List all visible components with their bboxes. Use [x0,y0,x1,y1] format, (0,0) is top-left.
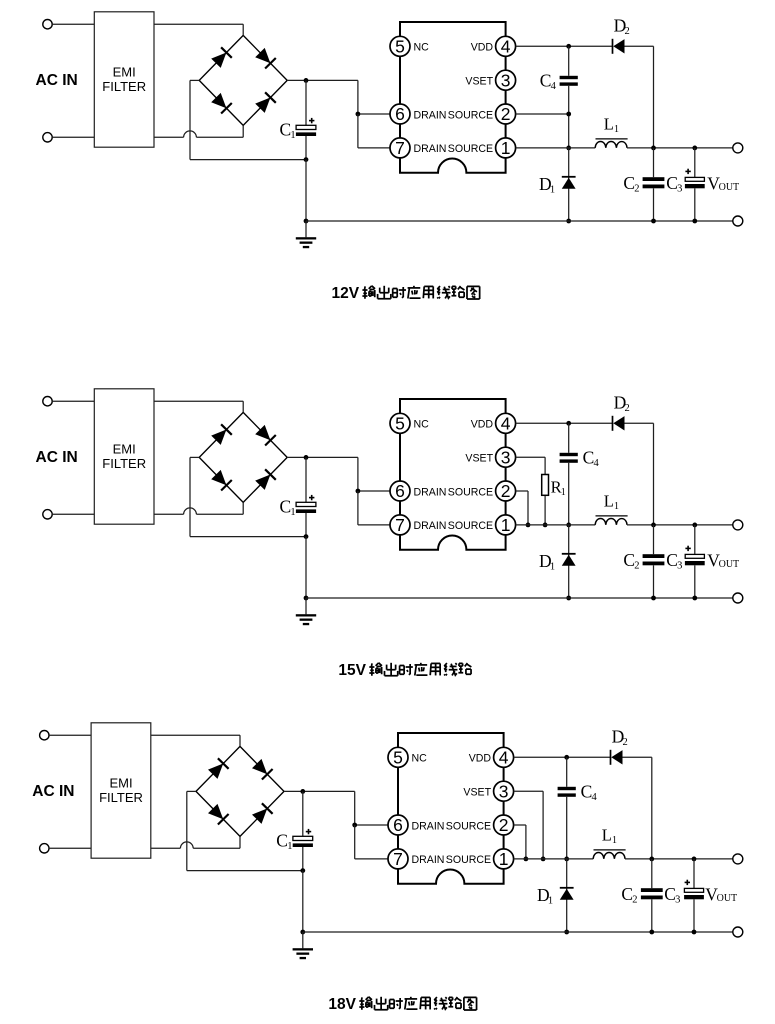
label L1 [604,492,619,512]
inductor L1 [595,516,627,525]
svg-text:7: 7 [393,849,403,869]
svg-text:1: 1 [499,849,509,869]
wire [151,735,240,746]
label C1 [276,830,292,852]
label AC IN [32,783,74,800]
wire [190,457,306,536]
pin 5 NC [390,36,429,56]
svg-text:NC: NC [412,753,428,765]
caption 18V application circuit [328,996,476,1013]
diode bridge bottom-left [208,804,229,825]
svg-text:12V: 12V [332,285,360,302]
label VOUT [707,550,739,570]
terminal output + [733,143,743,153]
svg-text:L: L [604,492,614,511]
pin 6 DRAIN [390,481,446,501]
terminal output - [733,927,743,937]
node C2 ground junction [651,219,656,224]
wire [287,79,358,81]
diode bridge top-left [208,758,229,779]
diode D2 [611,750,623,765]
svg-text:1: 1 [501,515,511,535]
node C2 ground junction [651,596,656,601]
node C3 top junction [692,146,697,151]
svg-text:3: 3 [501,447,511,467]
svg-text:4: 4 [592,792,598,803]
svg-text:SOURCE: SOURCE [448,143,493,155]
svg-text:OUT: OUT [717,893,738,904]
svg-text:2: 2 [634,184,639,195]
label D1 [539,174,555,196]
pin 3 VSET [463,781,513,801]
wire [49,734,91,736]
node VDD junction [564,755,569,760]
pin 1 SOURCE [448,138,516,158]
svg-text:OUT: OUT [719,182,740,193]
svg-text:AC IN: AC IN [36,72,78,89]
svg-text:EMI: EMI [113,65,136,80]
wire [187,791,303,870]
svg-text:3: 3 [501,70,511,90]
node L1 output junction [651,523,656,528]
capacitor C2 [643,525,665,598]
ground [296,598,316,625]
svg-text:1: 1 [614,124,619,135]
wire [516,45,613,47]
terminal output - [733,593,743,603]
wire [190,80,306,159]
node L1 output junction [651,146,656,151]
diode bridge top-right [252,759,273,780]
wire [303,931,733,933]
bridge rectifier frame [199,412,287,502]
diode bridge top-right [255,425,276,446]
node switch node junction [566,146,571,151]
svg-text:1: 1 [550,184,555,195]
svg-text:EMI: EMI [113,442,136,457]
node C3 top junction [692,857,697,862]
svg-text:6: 6 [395,481,405,501]
EMI filter block [94,12,154,147]
wire [516,422,613,424]
capacitor C4 [558,757,576,859]
diode bridge top-left [211,47,232,68]
svg-text:SOURCE: SOURCE [446,854,491,866]
label VOUT [705,884,737,904]
polarity + of C1 [309,495,314,500]
wire [151,836,240,848]
polarity + of C1 [306,829,311,834]
svg-text:DRAIN: DRAIN [414,109,447,121]
svg-text:FILTER: FILTER [102,79,146,94]
pin 2 SOURCE [448,104,516,124]
svg-text:DRAIN: DRAIN [412,854,445,866]
label D2 [614,16,630,37]
terminal AC input top [43,397,52,406]
svg-text:1: 1 [612,835,617,846]
bridge rectifier frame [199,35,287,125]
node D1 ground junction [566,219,571,224]
node L1 output junction [649,857,654,862]
diode bridge top-right [255,48,276,69]
wire [305,160,307,221]
svg-text:L: L [604,115,614,134]
node rectifier + junction [300,789,305,794]
svg-text:4: 4 [594,458,600,469]
svg-text:2: 2 [501,104,511,124]
svg-text:6: 6 [393,815,403,835]
svg-text:NC: NC [414,42,430,54]
wire [358,491,390,525]
svg-text:4: 4 [501,37,511,57]
wire [287,456,358,458]
terminal AC input bottom [43,133,52,142]
svg-text:VSET: VSET [463,787,491,799]
label C3 [664,884,680,906]
pin 5 NC [390,413,429,433]
wire [625,423,654,525]
polarity + of C3 [685,546,690,551]
node D1 ground junction [566,596,571,601]
svg-text:1: 1 [290,130,295,141]
svg-text:7: 7 [395,515,405,535]
node C3 ground junction [692,930,697,935]
svg-text:SOURCE: SOURCE [448,520,493,532]
svg-text:2: 2 [625,26,630,37]
wire [49,847,91,849]
ground [293,932,313,959]
svg-text:SOURCE: SOURCE [446,820,491,832]
node ground junction [304,596,309,601]
node drain feed junction [356,489,361,494]
svg-text:VSET: VSET [465,76,493,88]
wire [52,23,94,25]
label VOUT [707,173,739,193]
node SOURCE2 junction [566,112,571,117]
capacitor C3 [685,148,705,221]
wire [358,80,390,114]
wire [52,400,94,402]
EMI filter block [94,389,154,524]
wire [154,502,243,514]
svg-text:1: 1 [614,501,619,512]
svg-text:3: 3 [677,561,682,572]
inductor L1 [593,850,625,859]
svg-text:1: 1 [501,138,511,158]
svg-text:VSET: VSET [465,453,493,465]
svg-text:2: 2 [499,815,509,835]
label D2 [614,393,630,415]
svg-text:3: 3 [499,781,509,801]
capacitor C2 [643,148,665,221]
pin 3 VSET [465,447,515,467]
wire [514,791,544,859]
capacitor C1 [296,80,316,159]
wire [302,871,304,932]
diode D1 [562,148,576,221]
svg-text:2: 2 [625,403,630,414]
ground [296,221,316,248]
node SOURCE2 tie junction [526,523,531,528]
wire [355,791,388,825]
svg-text:2: 2 [632,895,637,906]
terminal output + [733,854,743,864]
capacitor C4 [560,423,578,525]
pin 4 VDD [469,747,514,767]
terminal AC input top [40,731,49,740]
svg-text:6: 6 [395,104,405,124]
pin 2 SOURCE [446,815,514,835]
svg-text:3: 3 [675,895,680,906]
polarity + of C3 [685,169,690,174]
caption 15V application circuit [338,662,471,679]
wire [355,825,388,859]
svg-text:AC IN: AC IN [36,449,78,466]
svg-text:3: 3 [677,184,682,195]
node C2 ground junction [649,930,654,935]
node C1 negative junction [300,868,305,873]
caption 12V application circuit [332,285,480,302]
capacitor C3 [685,525,705,598]
node C3 top junction [692,523,697,528]
wire [627,147,733,149]
svg-text:1: 1 [550,561,555,572]
bridge rectifier frame [196,746,284,836]
capacitor C1 [296,457,316,536]
svg-text:4: 4 [551,81,557,92]
diode D1 [562,525,576,598]
label AC IN [36,72,78,89]
svg-text:L: L [602,826,612,845]
label L1 [604,115,619,136]
node VSET tie junction [543,523,548,528]
wire [625,858,733,860]
svg-text:2: 2 [623,737,628,748]
svg-text:1: 1 [290,507,295,518]
pin 7 DRAIN [388,849,444,869]
pin 4 VDD [471,413,516,433]
op-amp U1 package outline [400,22,506,173]
node C1 negative junction [304,534,309,539]
pin 2 SOURCE [448,481,516,501]
svg-text:DRAIN: DRAIN [414,143,447,155]
wire [516,524,596,526]
polarity + of C1 [309,118,314,123]
node VSET tie junction [541,857,546,862]
pin 6 DRAIN [390,104,446,124]
svg-text:DRAIN: DRAIN [414,486,447,498]
diode bridge bottom-right [252,803,273,824]
pin 3 VSET [465,70,515,90]
label C2 [621,884,637,906]
wire [306,597,733,599]
svg-text:VDD: VDD [471,42,494,54]
wire [358,457,390,491]
label D2 [612,727,628,749]
wire [623,757,652,859]
diode D1 [560,859,574,932]
svg-text:AC IN: AC IN [32,783,74,800]
label AC IN [36,449,78,466]
wire [52,513,94,515]
wire [284,790,355,792]
node rectifier + junction [304,78,309,83]
node VDD junction [566,421,571,426]
label D1 [537,885,553,907]
node drain feed junction [352,823,357,828]
svg-text:5: 5 [395,37,405,57]
pin 7 DRAIN [390,515,446,535]
svg-text:1: 1 [548,895,553,906]
label C1 [280,119,296,141]
pin 7 DRAIN [390,138,446,158]
svg-text:1: 1 [561,487,566,498]
pin 4 VDD [471,36,516,56]
node VDD junction [566,44,571,49]
label C3 [666,173,682,195]
resistor R1 [542,475,549,496]
node C3 ground junction [692,596,697,601]
capacitor C4 [560,46,578,148]
wire [625,46,654,148]
wire [358,114,390,148]
pin 6 DRAIN [388,815,444,835]
label L1 [602,826,617,847]
node switch node junction [566,523,571,528]
svg-text:EMI: EMI [109,776,132,791]
terminal AC input bottom [43,510,52,519]
diode bridge bottom-right [255,92,276,113]
label C1 [280,496,296,518]
node drain feed junction [356,112,361,117]
wire [516,457,546,525]
wire [514,825,526,859]
label D1 [539,551,555,573]
op-amp U1 package outline [400,399,506,550]
node ground junction [300,930,305,935]
node C3 ground junction [692,219,697,224]
svg-text:VDD: VDD [471,419,494,431]
polarity + of C3 [685,880,690,885]
node SOURCE2 tie junction [524,857,529,862]
svg-text:15V: 15V [338,662,366,679]
wire [154,24,243,35]
terminal AC input top [43,20,52,29]
svg-text:DRAIN: DRAIN [414,520,447,532]
svg-text:2: 2 [501,481,511,501]
diode D2 [613,39,625,54]
diode D2 [613,416,625,431]
node C1 negative junction [304,157,309,162]
capacitor C1 [293,791,313,870]
label R1 [551,477,566,498]
diode bridge top-left [211,424,232,445]
svg-text:5: 5 [395,414,405,434]
pin 1 SOURCE [448,515,516,535]
label C3 [666,550,682,572]
capacitor C3 [684,859,704,932]
svg-text:SOURCE: SOURCE [448,109,493,121]
node rectifier + junction [304,455,309,460]
label C2 [623,550,639,572]
wire [516,491,528,525]
capacitor C2 [641,859,663,932]
wire [627,524,733,526]
wire [514,858,594,860]
svg-text:7: 7 [395,138,405,158]
label C4 [540,71,557,93]
node D1 ground junction [564,930,569,935]
pin 1 SOURCE [446,849,514,869]
svg-text:5: 5 [393,748,403,768]
label C4 [581,782,598,804]
terminal AC input bottom [40,844,49,853]
node ground junction [304,219,309,224]
svg-text:2: 2 [634,561,639,572]
diode bridge bottom-left [211,93,232,114]
svg-text:FILTER: FILTER [102,456,146,471]
wire [305,537,307,598]
svg-text:1: 1 [287,841,292,852]
wire [514,756,611,758]
svg-text:18V: 18V [328,996,356,1013]
label C4 [583,448,600,470]
wire [516,147,596,149]
svg-text:4: 4 [501,414,511,434]
wire [154,401,243,412]
label C2 [623,173,639,195]
wire [52,136,94,138]
pin 5 NC [388,747,427,767]
op-amp U1 package outline [398,733,504,884]
EMI filter block [91,723,151,858]
svg-text:OUT: OUT [719,559,740,570]
inductor L1 [595,139,627,148]
svg-text:NC: NC [414,419,430,431]
svg-text:4: 4 [499,748,509,768]
wire [516,113,569,115]
terminal output - [733,216,743,226]
svg-text:FILTER: FILTER [99,790,143,805]
wire [306,220,733,222]
wire [154,125,243,137]
svg-text:DRAIN: DRAIN [412,820,445,832]
node switch node junction [564,857,569,862]
diode bridge bottom-left [211,470,232,491]
terminal output + [733,520,743,530]
svg-text:VDD: VDD [469,753,492,765]
diode bridge bottom-right [255,469,276,490]
svg-text:SOURCE: SOURCE [448,486,493,498]
